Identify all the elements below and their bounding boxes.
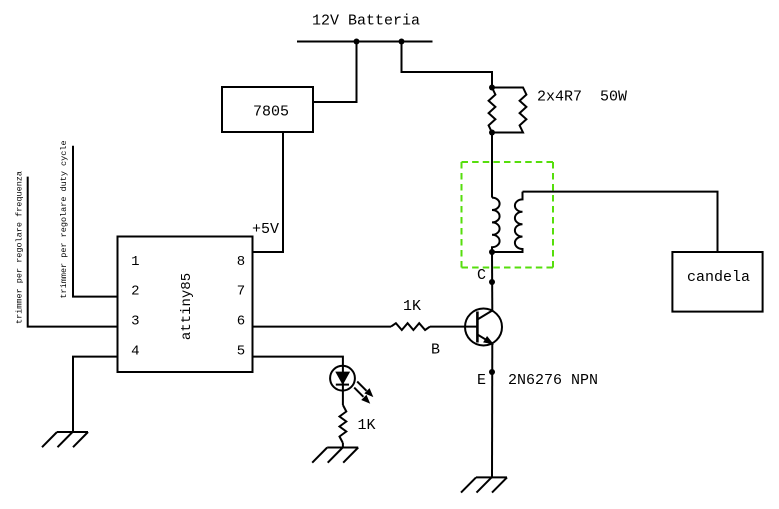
svg-text:3: 3	[131, 314, 139, 330]
svg-text:7: 7	[237, 284, 245, 300]
LED D1 triangle	[336, 372, 349, 384]
junction dot node E	[489, 369, 495, 375]
svg-text:B: B	[431, 342, 440, 359]
svg-text:trimmer per regolare frequenza: trimmer per regolare frequenza	[15, 171, 25, 324]
transistor Q1 base bar	[476, 312, 479, 343]
resistor R3 1K (LED)	[340, 405, 347, 443]
svg-text:1K: 1K	[358, 417, 376, 434]
wire: bus to power resistor	[402, 42, 493, 88]
svg-text:+5V: +5V	[252, 221, 279, 238]
LED D1 cathode bar	[336, 384, 349, 386]
wire: 12V battery bus	[297, 41, 433, 43]
svg-text:E: E	[477, 372, 486, 389]
regulator U2 7805 box	[222, 87, 313, 132]
svg-text:7805: 7805	[253, 104, 289, 121]
ground (emitter)	[461, 477, 507, 492]
wire: resistor to transformer primary	[491, 133, 493, 198]
wire: base resistor to base	[430, 326, 477, 328]
junction dot on bus (to resistor)	[399, 39, 405, 45]
junction dot resistor bottom	[489, 130, 495, 136]
wire: 7805 output to attiny85 pin 8	[252, 132, 283, 252]
transistor Q1 circle	[465, 309, 502, 346]
wire: pin6 to base resistor	[252, 326, 391, 328]
svg-text:2x4R7 50W: 2x4R7 50W	[537, 89, 627, 106]
ground (LED)	[312, 448, 358, 463]
svg-text:2N6276 NPN: 2N6276 NPN	[508, 372, 598, 389]
svg-text:8: 8	[237, 254, 245, 270]
transistor Q1 emitter stroke with arrow	[477, 335, 492, 344]
resistor R1a (left of 2x4R7 pair)	[489, 88, 496, 133]
svg-text:candela: candela	[687, 269, 750, 286]
candela box	[672, 252, 762, 312]
inductor L2 (secondary coil)	[492, 192, 523, 252]
wire: emitter to ground	[491, 344, 493, 478]
svg-text:attiny85: attiny85	[179, 273, 195, 340]
svg-text:1K: 1K	[403, 298, 421, 315]
wire: bus to 7805 input	[313, 42, 357, 103]
svg-text:6: 6	[237, 314, 245, 330]
ground (pin4)	[42, 432, 88, 447]
junction dot coils common node	[489, 249, 495, 255]
wire: pin 3 to frequency trimmer stub	[28, 177, 118, 327]
wire: common node to collector	[491, 252, 493, 311]
LED light arrow 1	[357, 382, 372, 397]
wire: pin 4 to ground	[73, 357, 118, 432]
junction dot on bus (to 7805)	[354, 39, 360, 45]
inductor L1 (primary coil)	[492, 198, 500, 252]
LED light arrow 2	[354, 388, 369, 403]
svg-text:12V Batteria: 12V Batteria	[312, 13, 420, 30]
svg-text:C: C	[477, 267, 486, 284]
junction dot resistor top	[489, 85, 495, 91]
svg-text:trimmer per regolare duty cycl: trimmer per regolare duty cycle	[59, 140, 69, 298]
transistor Q1 collector stroke	[477, 311, 492, 320]
wire: secondary coil to candela	[523, 192, 718, 252]
svg-text:5: 5	[237, 344, 245, 360]
LED D1 circle	[330, 366, 355, 391]
wire: pin 5 to LED	[252, 357, 343, 405]
wire: pin 2 to duty-cycle trimmer stub	[73, 146, 118, 297]
resistor R1b (right of 2x4R7 pair)	[492, 88, 526, 133]
svg-text:4: 4	[131, 344, 139, 360]
svg-text:1: 1	[131, 254, 139, 270]
IC U1 attiny85 box	[118, 237, 253, 373]
transformer highlight box (green dashed)	[462, 162, 554, 268]
svg-text:2: 2	[131, 284, 139, 300]
junction dot node C	[489, 279, 495, 285]
wire: resistor to ground	[342, 443, 344, 448]
resistor R2 1K (base)	[391, 323, 430, 330]
